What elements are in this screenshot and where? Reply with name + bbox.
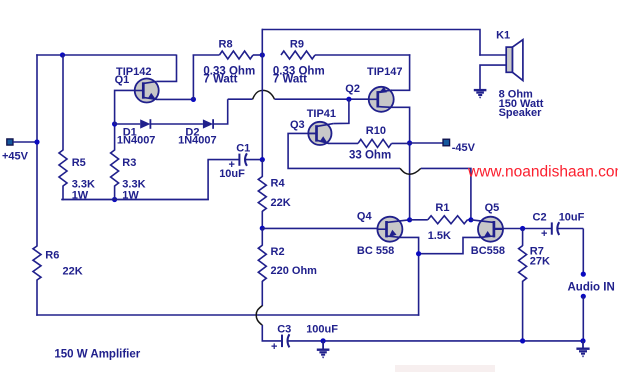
svg-text:27K: 27K — [530, 255, 550, 267]
svg-text:C2: C2 — [533, 211, 547, 223]
wire ground rail — [288, 340, 584, 342]
speaker K1 wire stub lower and ground drop — [480, 65, 507, 90]
junction Q1 emitter corner — [191, 97, 196, 102]
junction R1 right / Q5 collector — [468, 217, 473, 222]
wire vertical hop around feedback rail — [256, 306, 262, 326]
svg-text:+: + — [541, 228, 547, 240]
junction D1 anode / R3 / Q1 base — [112, 121, 117, 126]
wire audio input column lower — [582, 296, 584, 341]
svg-text:33 Ohm: 33 Ohm — [349, 150, 391, 162]
wire top-left rail horizontal — [36, 54, 176, 56]
junction R1 left / Q4 collector — [407, 217, 412, 222]
faint watermark remnant — [395, 365, 495, 372]
svg-text:+45V: +45V — [2, 151, 29, 163]
svg-text:Q4: Q4 — [357, 211, 373, 223]
resistor R10 — [328, 139, 411, 147]
svg-text:-45V: -45V — [452, 142, 476, 154]
junction R8/R9 output node — [260, 52, 265, 57]
svg-text:10uF: 10uF — [559, 211, 585, 223]
wire D2 cathode up to bias line — [213, 99, 228, 124]
junction Q3 collector tap — [346, 97, 351, 102]
transistor Q3 TIP41 — [308, 122, 333, 145]
svg-text:10uF: 10uF — [219, 168, 245, 180]
junction Q4/Q5 emitters — [416, 251, 421, 256]
svg-text:BC558: BC558 — [471, 245, 505, 257]
svg-text:+: + — [271, 341, 277, 353]
resistor R9 — [281, 51, 410, 59]
node audio input terminal lower — [581, 294, 586, 299]
resistor R6 — [33, 246, 41, 280]
svg-text:TIP147: TIP147 — [367, 66, 402, 78]
svg-text:7 Watt: 7 Watt — [273, 74, 307, 86]
svg-text:100uF: 100uF — [306, 323, 338, 335]
resistor R4 — [258, 160, 266, 229]
speaker K1 cone — [513, 40, 523, 81]
wire bottom feedback rail — [36, 314, 419, 316]
svg-text:1N4007: 1N4007 — [178, 135, 217, 147]
resistor R2 — [258, 228, 266, 306]
wire Q2 collector down the -45V column — [391, 107, 410, 220]
svg-text:R2: R2 — [271, 246, 285, 258]
junction R7 bottom — [520, 338, 525, 343]
junction Q5 base / R7 / C2 — [520, 226, 525, 231]
wire Q4 emitter to shared node — [401, 237, 419, 254]
wire R5/R3 bottom bus — [61, 199, 209, 201]
wire hop under -45V column — [400, 168, 421, 174]
svg-text:R9: R9 — [290, 39, 304, 51]
svg-text:Q5: Q5 — [485, 202, 500, 214]
wire feedback rail up to Q4/Q5 emitter junction — [418, 254, 420, 316]
svg-text:Audio IN: Audio IN — [568, 281, 615, 293]
svg-text:R8: R8 — [219, 39, 233, 51]
junction R4/R2/Q4 base — [260, 226, 265, 231]
svg-text:150 W Amplifier: 150 W Amplifier — [54, 348, 140, 360]
junction +45V rail — [34, 139, 39, 144]
wire Q5 emitter to shared node — [418, 237, 480, 253]
wire R8 left vertical — [192, 55, 194, 101]
junction R5 top — [60, 52, 65, 57]
svg-text:www.noandishaan.com: www.noandishaan.com — [467, 164, 618, 181]
svg-text:R10: R10 — [366, 125, 386, 137]
ground below C3 — [317, 341, 330, 359]
svg-text:Q2: Q2 — [345, 83, 360, 95]
resistor R3 — [111, 124, 119, 201]
junction audio ground — [580, 338, 585, 343]
wire R2 column down to C3 — [262, 325, 282, 341]
wire Q1 base L-path — [115, 90, 144, 124]
wire output column down to C1 — [261, 55, 263, 160]
wire bias line to Q2 base (right of hop) — [275, 98, 379, 100]
resistor R8 — [193, 51, 263, 59]
diode D1 1N4007 — [114, 119, 151, 129]
resistor R5 — [59, 55, 67, 201]
transistor Q5 BC558 — [471, 217, 503, 242]
svg-text:K1: K1 — [496, 30, 510, 42]
wire R10 junction to -45V terminal — [410, 142, 444, 144]
ground below audio input — [576, 341, 589, 358]
wire Q3 collector to Q2 base node — [333, 99, 349, 123]
speaker K1 driver — [506, 47, 512, 72]
svg-text:R3: R3 — [122, 157, 136, 169]
junction R3 bottom — [112, 197, 117, 202]
wire C1 left feed down-left — [62, 160, 209, 200]
node -45V supply terminal — [443, 139, 450, 146]
wire bias net to Q5 collector column — [421, 168, 471, 220]
wire output node up — [261, 29, 263, 55]
node +45V supply terminal — [7, 139, 13, 145]
svg-text:R1: R1 — [435, 202, 449, 214]
transistor Q1 TIP142 — [135, 79, 159, 103]
ground below speaker — [474, 90, 487, 99]
svg-text:1N4007: 1N4007 — [117, 135, 156, 147]
wire bias line to Q2 base (left of hop) — [228, 98, 253, 100]
wire D1 cathode to D2 anode — [150, 123, 203, 125]
wire Q1 emitter to R8 corner — [157, 98, 195, 100]
capacitor C2 10uF — [541, 222, 583, 240]
transistor Q4 BC558 — [377, 217, 409, 242]
diode D2 1N4007 — [203, 119, 213, 129]
wire top rail to speaker — [262, 30, 480, 56]
svg-text:220 Ohm: 220 Ohm — [271, 265, 318, 277]
wire +45V terminal to rail — [13, 141, 37, 143]
svg-text:22K: 22K — [63, 266, 83, 278]
svg-text:BC 558: BC 558 — [357, 245, 394, 257]
svg-text:Speaker: Speaker — [499, 107, 543, 119]
svg-text:22K: 22K — [271, 197, 291, 209]
wire Q5 base to C2 — [494, 228, 552, 230]
svg-text:R6: R6 — [45, 250, 59, 262]
node audio input terminal upper — [581, 272, 586, 277]
wire left supply rail vertical x=37 — [36, 54, 38, 246]
svg-text:TIP41: TIP41 — [307, 108, 336, 120]
junction ground rail at C3 ground — [321, 338, 326, 343]
svg-text:C1: C1 — [236, 142, 250, 154]
capacitor C3 100uF — [271, 334, 289, 353]
svg-text:R5: R5 — [72, 157, 86, 169]
resistor R1 — [410, 216, 472, 224]
svg-text:C3: C3 — [277, 323, 291, 335]
speaker K1 wire stub upper — [479, 54, 507, 56]
wire R9 right to Q2 emitter — [391, 54, 409, 90]
svg-text:1.5K: 1.5K — [428, 230, 451, 242]
svg-text:R4: R4 — [271, 178, 286, 190]
wire R6 bottom to ground rail — [36, 280, 38, 316]
wire audio input column upper — [582, 229, 584, 275]
wire Q1 collector loop — [157, 55, 177, 82]
junction C1 right plate — [260, 157, 265, 162]
resistor R7 — [519, 229, 527, 342]
wire hop over output column — [253, 90, 275, 99]
svg-text:7 Watt: 7 Watt — [203, 74, 237, 86]
wire Q4 base feed — [262, 227, 387, 229]
capacitor C1 10uF — [207, 153, 263, 171]
transistor Q2 TIP147 — [369, 87, 394, 112]
svg-text:Q1: Q1 — [115, 74, 130, 86]
wire Q3 base U-path — [288, 133, 400, 168]
svg-text:Q3: Q3 — [290, 119, 305, 131]
junction R10 / -45V tap — [407, 140, 412, 145]
